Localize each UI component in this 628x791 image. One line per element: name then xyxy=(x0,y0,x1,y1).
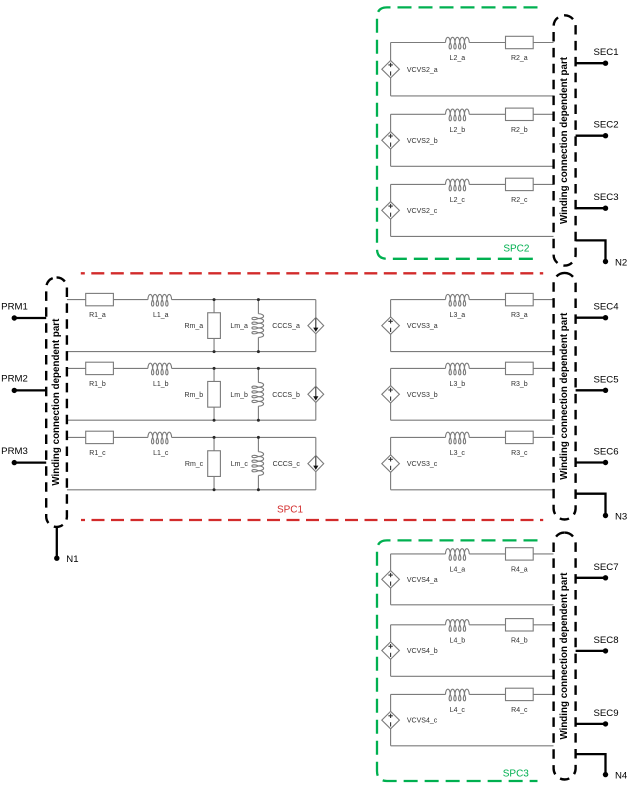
wire xyxy=(213,368,215,420)
svg-text:R2_a: R2_a xyxy=(511,55,528,62)
resistor R2_c xyxy=(506,178,534,190)
junction xyxy=(213,298,216,301)
terminal SEC7 xyxy=(576,562,619,581)
junction xyxy=(213,436,216,439)
junction xyxy=(213,488,216,491)
subcircuit boundary SPC3 xyxy=(377,540,538,781)
dependent source (VCVS) VCVS4_c xyxy=(382,711,400,728)
svg-text:SEC4: SEC4 xyxy=(593,302,619,313)
dependent source (VCVS) VCVS2_b xyxy=(382,132,400,149)
winding connection block (secondary 1) xyxy=(554,15,576,265)
dependent source (VCVS) VCVS3_b xyxy=(382,386,400,403)
wire xyxy=(391,625,554,677)
subcircuit boundary SPC1 bottom edge xyxy=(81,519,543,521)
resistor R3_b xyxy=(506,362,534,374)
wire xyxy=(391,553,554,555)
resistor R2_a xyxy=(506,36,534,48)
svg-text:Rm_a: Rm_a xyxy=(185,323,204,330)
wire xyxy=(67,472,316,490)
inductor L1_b xyxy=(148,363,172,375)
terminal PRM2 xyxy=(1,374,46,393)
wire xyxy=(391,368,554,420)
resistor R3_c xyxy=(506,431,534,443)
neutral terminal N4 xyxy=(576,754,628,781)
junction xyxy=(257,298,260,301)
svg-text:SEC3: SEC3 xyxy=(593,192,618,203)
inductor Lm_b xyxy=(252,382,264,406)
resistor R3_a xyxy=(506,293,534,305)
subcircuit boundary SPC2 xyxy=(377,7,538,258)
wire xyxy=(391,624,554,626)
junction xyxy=(213,350,216,353)
svg-text:N4: N4 xyxy=(615,770,628,781)
wire xyxy=(391,43,554,96)
terminal SEC9 xyxy=(576,708,619,727)
svg-text:R3_c: R3_c xyxy=(511,450,528,457)
terminal PRM3 xyxy=(1,446,46,465)
resistor R1_b xyxy=(86,362,114,374)
neutral terminal N3 xyxy=(576,494,628,523)
inductor L2_c xyxy=(445,179,469,191)
terminal SEC8 xyxy=(576,635,619,654)
wire xyxy=(257,368,259,420)
svg-text:SEC5: SEC5 xyxy=(593,374,618,385)
svg-text:CCCS_a: CCCS_a xyxy=(272,323,300,330)
junction xyxy=(213,367,216,370)
dependent source (VCVS) VCVS2_a xyxy=(382,61,400,78)
svg-text:Rm_b: Rm_b xyxy=(185,392,204,399)
wire xyxy=(391,554,554,605)
junction xyxy=(213,419,216,422)
wire xyxy=(391,114,554,166)
winding connection block (secondary 3) xyxy=(554,533,576,780)
neutral terminal N2 xyxy=(576,240,628,268)
svg-text:R3_b: R3_b xyxy=(511,381,528,388)
inductor L4_b xyxy=(445,620,469,632)
winding connection block (secondary 2) xyxy=(554,273,576,520)
svg-text:Lm_c: Lm_c xyxy=(231,461,249,468)
terminal SEC1 xyxy=(576,47,619,66)
terminal SEC5 xyxy=(576,374,619,393)
inductor L3_c xyxy=(445,432,469,444)
svg-text:SEC8: SEC8 xyxy=(593,635,618,646)
svg-text:L3_c: L3_c xyxy=(450,450,466,457)
wire xyxy=(391,367,554,369)
svg-text:Winding connection dependent p: Winding connection dependent part xyxy=(559,56,570,224)
svg-text:R4_c: R4_c xyxy=(511,707,528,714)
terminal SEC2 xyxy=(576,120,619,139)
resistor R2_b xyxy=(506,108,534,120)
svg-text:VCVS2_b: VCVS2_b xyxy=(407,138,438,145)
resistor R4_c xyxy=(506,688,534,700)
winding connection block (primary) xyxy=(46,277,67,527)
svg-text:Winding connection dependent p: Winding connection dependent part xyxy=(51,318,62,486)
wire xyxy=(67,300,316,318)
junction xyxy=(257,419,260,422)
svg-text:VCVS3_b: VCVS3_b xyxy=(407,392,438,399)
svg-text:N1: N1 xyxy=(66,554,78,565)
resistor Rm_c xyxy=(208,451,221,477)
junction xyxy=(257,367,260,370)
dependent source (VCVS) VCVS2_c xyxy=(382,202,400,219)
svg-text:VCVS2_c: VCVS2_c xyxy=(407,208,438,215)
svg-text:N3: N3 xyxy=(615,511,627,522)
terminal SEC6 xyxy=(576,447,619,466)
svg-text:VCVS4_a: VCVS4_a xyxy=(407,577,438,584)
wire xyxy=(391,694,554,745)
terminal SEC3 xyxy=(576,192,619,211)
inductor L4_a xyxy=(445,549,469,561)
resistor R4_a xyxy=(506,548,534,560)
inductor Lm_c xyxy=(252,452,264,476)
svg-text:PRM2: PRM2 xyxy=(1,374,28,385)
svg-text:CCCS_b: CCCS_b xyxy=(272,392,300,399)
wire xyxy=(391,693,554,695)
resistor R1_a xyxy=(86,293,114,305)
svg-text:L1_b: L1_b xyxy=(153,381,169,388)
inductor L2_a xyxy=(445,37,469,49)
svg-text:L1_a: L1_a xyxy=(153,312,169,319)
svg-text:CCCS_c: CCCS_c xyxy=(273,461,301,468)
subcircuit boundary SPC1 top edge xyxy=(81,272,543,274)
svg-text:SEC9: SEC9 xyxy=(593,708,618,719)
svg-text:L3_a: L3_a xyxy=(450,312,466,319)
svg-text:Rm_c: Rm_c xyxy=(185,461,204,468)
resistor Rm_a xyxy=(208,313,221,339)
svg-text:L1_c: L1_c xyxy=(153,450,169,457)
wire xyxy=(67,368,316,386)
svg-text:R2_c: R2_c xyxy=(511,197,528,204)
svg-text:L2_a: L2_a xyxy=(450,55,466,62)
dependent source (VCVS) VCVS4_a xyxy=(382,571,400,588)
svg-text:SPC2: SPC2 xyxy=(503,244,530,255)
resistor R1_c xyxy=(86,431,114,443)
svg-text:L4_a: L4_a xyxy=(450,566,466,573)
svg-text:R2_b: R2_b xyxy=(511,127,528,134)
terminal PRM1 xyxy=(1,301,46,320)
svg-text:SEC1: SEC1 xyxy=(593,47,618,58)
junction xyxy=(257,350,260,353)
svg-text:L4_c: L4_c xyxy=(450,707,466,714)
svg-text:Winding connection dependent p: Winding connection dependent part xyxy=(559,312,570,480)
wire xyxy=(213,300,215,352)
wire xyxy=(391,300,554,352)
svg-text:VCVS3_a: VCVS3_a xyxy=(407,323,438,330)
svg-text:Lm_a: Lm_a xyxy=(230,323,248,330)
svg-text:SPC1: SPC1 xyxy=(277,505,304,516)
svg-text:SEC6: SEC6 xyxy=(593,447,618,458)
dependent source (CCCS) CCCS_b xyxy=(308,386,324,402)
dependent source (VCVS) VCVS4_b xyxy=(382,642,400,659)
svg-text:R4_b: R4_b xyxy=(511,637,528,644)
wire xyxy=(391,42,554,44)
svg-text:VCVS2_a: VCVS2_a xyxy=(407,67,438,74)
svg-text:VCVS3_c: VCVS3_c xyxy=(407,461,438,468)
inductor L2_b xyxy=(445,109,469,121)
resistor Rm_b xyxy=(208,381,221,407)
wire xyxy=(257,300,259,352)
svg-text:VCVS4_c: VCVS4_c xyxy=(407,718,438,725)
wire xyxy=(391,113,554,115)
dependent source (VCVS) VCVS3_c xyxy=(382,455,400,472)
svg-text:R1_c: R1_c xyxy=(89,450,106,457)
svg-text:R3_a: R3_a xyxy=(511,312,528,319)
svg-text:PRM1: PRM1 xyxy=(1,301,28,312)
dependent source (CCCS) CCCS_c xyxy=(308,456,324,472)
svg-text:R1_a: R1_a xyxy=(89,312,106,319)
svg-text:N2: N2 xyxy=(615,257,627,268)
wire xyxy=(213,437,215,489)
svg-text:Lm_b: Lm_b xyxy=(230,392,248,399)
inductor L3_a xyxy=(445,294,469,306)
inductor L1_a xyxy=(148,294,172,306)
junction xyxy=(257,488,260,491)
resistor R4_b xyxy=(506,619,534,631)
svg-text:L4_b: L4_b xyxy=(450,637,466,644)
svg-text:SPC3: SPC3 xyxy=(503,769,530,780)
svg-text:L2_b: L2_b xyxy=(450,127,466,134)
wire xyxy=(391,436,554,438)
svg-text:R1_b: R1_b xyxy=(89,381,106,388)
dependent source (VCVS) VCVS3_a xyxy=(382,317,400,334)
wire xyxy=(67,402,316,420)
svg-text:Winding connection dependent p: Winding connection dependent part xyxy=(559,572,570,740)
wire xyxy=(391,183,554,185)
neutral terminal N1 xyxy=(54,527,78,565)
svg-text:L3_b: L3_b xyxy=(450,381,466,388)
inductor Lm_a xyxy=(252,314,264,338)
inductor L4_c xyxy=(445,689,469,701)
wire xyxy=(391,184,554,236)
svg-text:SEC7: SEC7 xyxy=(593,562,618,573)
inductor L1_c xyxy=(148,432,172,444)
wire xyxy=(391,299,554,301)
wire xyxy=(67,437,316,455)
svg-text:R4_a: R4_a xyxy=(511,566,528,573)
wire xyxy=(257,437,259,489)
svg-text:VCVS4_b: VCVS4_b xyxy=(407,648,438,655)
svg-text:SEC2: SEC2 xyxy=(593,120,618,131)
dependent source (CCCS) CCCS_a xyxy=(308,318,324,334)
wire xyxy=(391,437,554,489)
inductor L3_b xyxy=(445,363,469,375)
svg-text:L2_c: L2_c xyxy=(450,197,466,204)
wire xyxy=(67,334,316,352)
svg-text:PRM3: PRM3 xyxy=(1,446,28,457)
junction xyxy=(257,436,260,439)
terminal SEC4 xyxy=(576,302,620,321)
